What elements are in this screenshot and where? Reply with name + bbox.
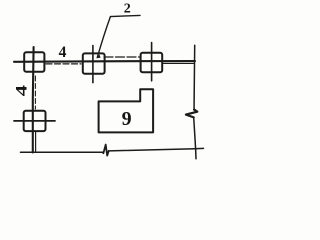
wire: leader line for label 2 <box>97 15 140 57</box>
wire: top wall secondary dashed line (between column 1 and 2) <box>46 63 81 65</box>
arrowhead of leader 2 <box>96 54 100 58</box>
node: column C3 centerline <box>151 43 153 81</box>
wire: top wall secondary line (right of column 3) <box>163 62 194 64</box>
label 4 (left dimension, rotated) <box>13 85 30 97</box>
wire: left wall main vertical line <box>32 47 35 153</box>
node: column C4 horizontal centerline <box>14 120 55 122</box>
wire: top wall main line <box>14 60 195 63</box>
wire: left wall secondary dashed vertical <box>34 76 36 109</box>
wire: left wall secondary vertical below column 4 <box>35 132 37 153</box>
wire: right boundary line upper part <box>193 45 196 110</box>
break symbol on right boundary <box>186 110 197 118</box>
part 9 outline (stepped polygon) <box>99 89 154 132</box>
column C4 (bottom-left square) <box>24 111 46 131</box>
column C3 (top-right square) <box>141 53 163 72</box>
column C1 (top-left square) <box>24 52 44 72</box>
node: column C2 centerline <box>92 46 94 83</box>
wire: bottom boundary line left part <box>21 151 103 153</box>
wire: right boundary line lower part <box>194 117 196 159</box>
wire: bottom boundary line right part <box>109 148 204 151</box>
svg-text:4: 4 <box>13 85 30 97</box>
wire: top wall secondary dashed line (between column 2 and 3) <box>104 56 140 58</box>
break symbol on bottom boundary <box>103 145 109 156</box>
svg-text:9: 9 <box>122 108 132 130</box>
column C2 (top-middle square) <box>83 53 105 73</box>
svg-text:4: 4 <box>59 44 67 61</box>
svg-text:2: 2 <box>124 2 131 17</box>
